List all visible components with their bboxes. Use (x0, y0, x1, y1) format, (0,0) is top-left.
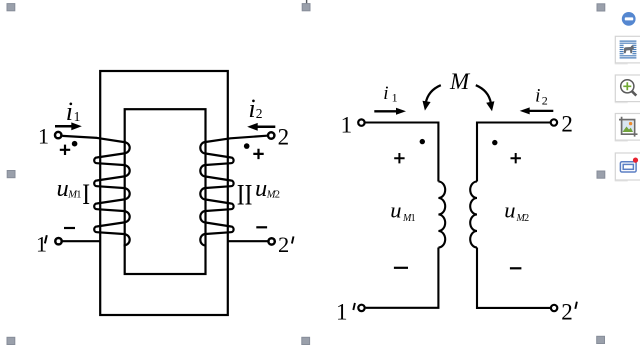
wire 1' to core left leg (62, 240, 101, 242)
svg-text:II: II (237, 178, 253, 211)
svg-text:u: u (504, 198, 515, 223)
selection handle top-right (597, 4, 605, 11)
polarity dot L1 (420, 139, 425, 144)
svg-text:1: 1 (74, 109, 81, 124)
svg-text:2: 2 (542, 93, 548, 107)
svg-text:M: M (449, 69, 471, 94)
selection handle top-center (302, 4, 310, 11)
minus sign L1 (394, 267, 408, 269)
polarity dot L2 (492, 140, 497, 145)
terminal 2' (551, 305, 557, 311)
toolbar button 1 (text-wrap) (615, 36, 640, 63)
selection handle mid-left (7, 171, 15, 178)
winding II (right coil) with lead from terminal 2 (200, 136, 267, 246)
svg-text:2: 2 (561, 111, 573, 136)
minus sign right (256, 226, 267, 228)
mutual coupling arrow right (476, 85, 491, 103)
plus sign L1 (394, 153, 404, 163)
core outer rectangle (100, 71, 228, 315)
terminal 2 (551, 119, 557, 125)
svg-text:1: 1 (341, 112, 353, 137)
terminal 1 (358, 119, 364, 125)
svg-text:I: I (82, 177, 90, 210)
svg-text:1: 1 (411, 213, 416, 224)
svg-text:2: 2 (275, 189, 280, 200)
svg-text:2: 2 (278, 232, 289, 257)
current arrow i1 (55, 125, 74, 128)
toolbar button 4 (border style) (615, 153, 640, 180)
svg-text:2: 2 (278, 124, 290, 149)
selection handle top-left (7, 4, 15, 11)
terminal 1' (55, 238, 61, 244)
svg-text:u: u (255, 175, 267, 202)
terminal 1' (358, 305, 364, 311)
mutual coupling arrow left (426, 85, 441, 103)
minus sign left (64, 227, 75, 229)
plus sign left (60, 145, 70, 155)
plus sign L2 (511, 153, 521, 163)
svg-text:2: 2 (524, 213, 529, 224)
selection handle bottom-left (7, 337, 15, 344)
svg-text:1: 1 (38, 123, 49, 148)
svg-text:i: i (535, 86, 540, 107)
winding I (left coil) with lead from terminal 1 (62, 136, 129, 246)
wire L2 bottom (477, 248, 550, 308)
selection handle bottom-center (302, 337, 310, 344)
toolbar button 2 (zoom) (615, 75, 640, 102)
core inner rectangle (window) (125, 109, 206, 274)
wire L1 bottom (366, 248, 439, 308)
svg-text:2: 2 (561, 299, 573, 324)
svg-text:1: 1 (36, 232, 47, 257)
svg-text:i: i (66, 97, 73, 126)
svg-text:1: 1 (392, 91, 398, 105)
svg-text:1: 1 (336, 299, 348, 324)
svg-text:i: i (248, 94, 255, 123)
wire 2 to L2 top and down (477, 123, 550, 182)
minus sign L2 (510, 267, 522, 269)
selection handle mid-right (597, 171, 605, 178)
toolbar button shadows (615, 63, 628, 182)
polarity dot left (72, 141, 78, 147)
svg-text:1: 1 (76, 189, 81, 200)
wire right leg to 2' (228, 240, 269, 242)
svg-text:i: i (383, 83, 388, 104)
current arrow i1 (374, 110, 396, 112)
rotation handle stem (306, 0, 307, 4)
wire 1 to L1 top and down (365, 123, 438, 182)
selection handle bottom-right (597, 336, 605, 343)
svg-text:u: u (57, 175, 69, 202)
terminal 2 (268, 132, 274, 138)
inductor L1 (438, 182, 445, 248)
current arrow i2 (257, 126, 276, 129)
terminal 2' (268, 238, 274, 244)
toolbar button 3 (crop picture) (615, 114, 640, 141)
blue minus button (622, 12, 636, 26)
svg-text:u: u (390, 198, 401, 223)
current arrow i2 (529, 110, 553, 112)
svg-text:2: 2 (256, 106, 263, 121)
terminal 1 (55, 132, 61, 138)
plus sign right (253, 149, 263, 159)
polarity dot right (244, 143, 250, 149)
inductor L2 (470, 182, 477, 248)
